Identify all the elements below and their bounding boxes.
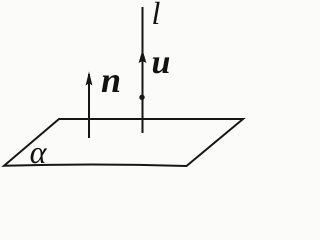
svg-text:α: α xyxy=(30,134,48,170)
vector n arrowhead xyxy=(86,72,93,86)
plane alpha (parallelogram) xyxy=(4,119,243,166)
line l xyxy=(142,7,144,133)
point on line l xyxy=(139,95,144,100)
vector n shaft xyxy=(88,74,90,138)
svg-text:u: u xyxy=(151,44,170,81)
vector u arrowhead xyxy=(139,50,147,64)
svg-text:l: l xyxy=(151,0,160,31)
svg-text:n: n xyxy=(101,60,121,100)
